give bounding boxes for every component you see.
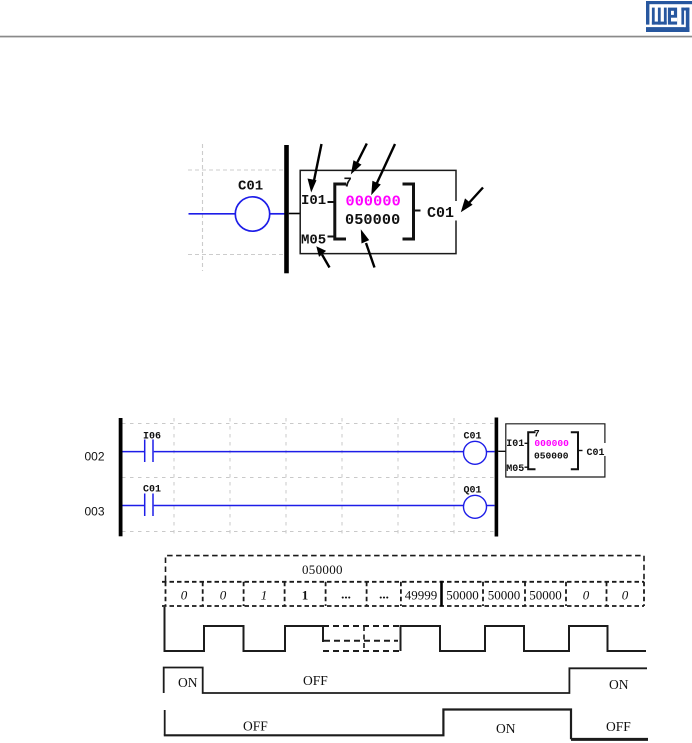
- right bracket: [403, 184, 414, 239]
- svg-text:I01: I01: [506, 439, 524, 450]
- svg-text:002: 002: [85, 450, 105, 464]
- wire rung 002 left: [123, 451, 145, 453]
- left power rail: [119, 418, 123, 536]
- wire rung 003: [154, 505, 464, 507]
- counter block (small) outline: [506, 424, 605, 477]
- svg-text:7: 7: [344, 176, 352, 192]
- wire: [189, 213, 236, 215]
- annotation arrow to C01: [461, 188, 483, 213]
- svg-text:050000: 050000: [302, 562, 343, 577]
- svg-text:...: ...: [341, 587, 351, 602]
- output tick: [414, 210, 421, 212]
- annotation arrow to block top: [351, 144, 367, 175]
- contact I06: [143, 431, 161, 462]
- annotation arrow to 000000: [371, 144, 395, 195]
- pulse waveform: [165, 607, 647, 651]
- pin tick: [328, 236, 335, 238]
- svg-text:M05: M05: [301, 233, 326, 249]
- annotation arrow to 050000: [361, 229, 375, 267]
- annotation arrow to I01: [308, 144, 322, 193]
- svg-text:OFF: OFF: [243, 719, 268, 734]
- svg-text:50000: 50000: [488, 588, 521, 603]
- svg-text:0: 0: [622, 588, 629, 603]
- svg-text:50000: 50000: [446, 588, 479, 603]
- wire: [487, 451, 495, 453]
- cell divider solid: [440, 581, 443, 607]
- pin tick: [328, 201, 335, 203]
- counter value cell row: [162, 582, 644, 606]
- WEG logo: [646, 1, 692, 32]
- coil Q01: [464, 485, 487, 518]
- signal trace row 2: [164, 710, 648, 740]
- pin tick (small): [525, 466, 529, 468]
- annotation arrow to M05: [316, 246, 329, 267]
- svg-text:49999: 49999: [405, 588, 438, 603]
- counter block outline (enlarged): [300, 170, 456, 253]
- coil C01 (enlarged view): [235, 179, 269, 232]
- wire: [289, 213, 300, 215]
- svg-text:0: 0: [181, 588, 188, 603]
- svg-text:...: ...: [379, 587, 389, 602]
- svg-text:C01: C01: [587, 448, 605, 459]
- header rule: [0, 36, 692, 38]
- cell values: [181, 587, 629, 603]
- power rail (enlarged view): [284, 145, 289, 273]
- wire to counter block: [498, 450, 506, 452]
- svg-text:0: 0: [220, 588, 227, 603]
- svg-text:050000: 050000: [534, 450, 569, 461]
- svg-text:1: 1: [261, 588, 268, 603]
- svg-text:I06: I06: [143, 431, 161, 442]
- wire rung 002: [154, 451, 464, 453]
- pin tick (small): [525, 442, 529, 444]
- coil C01: [464, 431, 487, 464]
- svg-text:ON: ON: [178, 675, 198, 690]
- right bracket (small): [571, 432, 578, 469]
- wire: [270, 213, 285, 215]
- svg-text:C01: C01: [464, 431, 482, 442]
- svg-text:ON: ON: [496, 721, 516, 736]
- output tick (small): [578, 450, 583, 452]
- left bracket: [335, 184, 346, 239]
- svg-text:C01: C01: [427, 205, 454, 222]
- svg-text:Q01: Q01: [464, 485, 482, 496]
- svg-text:000000: 000000: [534, 438, 569, 449]
- svg-text:OFF: OFF: [303, 673, 328, 688]
- svg-text:C01: C01: [143, 485, 161, 496]
- signal trace row 1: [164, 668, 647, 694]
- right power rail: [495, 418, 499, 537]
- preset value box 050000: [166, 556, 645, 581]
- svg-text:0: 0: [583, 588, 590, 603]
- svg-text:50000: 50000: [529, 588, 562, 603]
- svg-text:1: 1: [302, 588, 309, 603]
- svg-text:M05: M05: [506, 464, 524, 475]
- svg-text:I01: I01: [301, 193, 326, 209]
- svg-text:003: 003: [85, 505, 105, 519]
- left bracket (small): [528, 432, 535, 469]
- svg-text:000000: 000000: [346, 193, 401, 211]
- svg-text:ON: ON: [609, 677, 629, 692]
- svg-text:OFF: OFF: [606, 719, 631, 734]
- svg-text:050000: 050000: [345, 211, 400, 229]
- contact C01: [143, 485, 161, 517]
- svg-text:C01: C01: [238, 179, 263, 195]
- wire: [487, 505, 495, 507]
- wire rung 003 left: [123, 505, 145, 507]
